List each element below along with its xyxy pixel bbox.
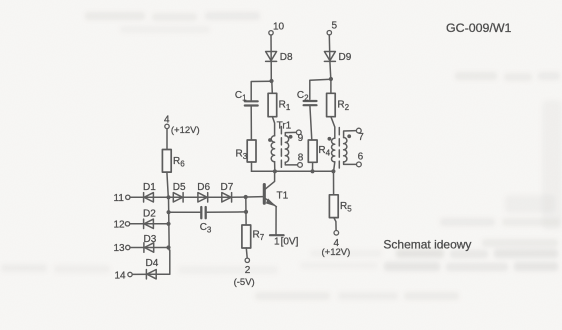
svg-text:14: 14 [115, 271, 127, 282]
wire [328, 35, 331, 61]
wire [272, 117, 274, 136]
diode D1 [144, 193, 154, 202]
svg-text:8: 8 [298, 153, 304, 164]
svg-text:D7: D7 [221, 182, 234, 193]
wire [334, 218, 336, 231]
terminal 11 [126, 195, 130, 199]
node D (R4 junction) [310, 169, 314, 173]
capacitor C2 [304, 101, 317, 105]
svg-text:1[0V]: 1[0V] [274, 237, 299, 248]
phase dot left winding Tr1 [268, 138, 272, 142]
svg-text:2: 2 [245, 265, 251, 276]
terminal 10 [269, 31, 273, 35]
transformer Tr2 [328, 128, 362, 169]
resistor R1 [268, 93, 277, 116]
wire [156, 250, 170, 274]
wire [130, 223, 169, 225]
wire [310, 79, 331, 99]
wire [270, 61, 272, 81]
diode D5 [173, 193, 183, 202]
wire [310, 106, 312, 140]
left winding of Tr2 [332, 138, 335, 162]
left winding of Tr1 [271, 136, 274, 162]
node B [329, 77, 333, 81]
svg-text:6: 6 [358, 152, 364, 163]
wire to terminal 8 [285, 162, 297, 165]
phase dot left winding Tr2 [328, 137, 332, 141]
core of Tr2 [338, 128, 340, 169]
svg-text:D2: D2 [143, 209, 156, 220]
svg-text:GC-009/W1: GC-009/W1 [446, 21, 512, 35]
resistor R3 [247, 140, 256, 162]
svg-text:D9: D9 [339, 52, 352, 63]
wire [245, 197, 247, 225]
svg-text:Tr1: Tr1 [277, 121, 292, 132]
svg-text:(+12V): (+12V) [171, 125, 200, 136]
node J [167, 210, 171, 214]
svg-text:D6: D6 [197, 182, 210, 193]
diode D4 [146, 270, 156, 279]
wire (C3 row right) [205, 211, 246, 213]
wire (C3 row left) [169, 211, 200, 213]
svg-text:13: 13 [114, 243, 126, 254]
transformer Tr1 [268, 127, 302, 169]
diode D9 [324, 52, 335, 62]
ground (terminal 1, 0V) [270, 234, 284, 236]
wire [271, 81, 274, 93]
capacitor C3 [201, 207, 205, 218]
wire (to base of T1) [232, 196, 263, 199]
wire [130, 247, 169, 249]
terminal 8 [298, 163, 303, 168]
diode D3 [144, 243, 154, 252]
wire (Tr1 left winding bottom to bus) [274, 162, 276, 172]
svg-text:7: 7 [358, 132, 364, 143]
right winding of Tr2 [344, 138, 347, 162]
svg-text:D4: D4 [146, 258, 159, 269]
wire (emitter down) [275, 207, 277, 235]
svg-text:(+12V): (+12V) [322, 247, 351, 258]
diode D6 [198, 193, 208, 202]
terminal 5 [327, 31, 331, 35]
node G [244, 195, 248, 199]
svg-text:12: 12 [114, 220, 126, 231]
terminal 2 [245, 258, 249, 262]
svg-text:D1: D1 [143, 182, 156, 193]
diode D2 [144, 219, 154, 228]
terminal 9 [296, 130, 301, 135]
svg-text:T1: T1 [277, 191, 289, 202]
node E (R5 junction) [331, 169, 335, 173]
core of Tr1 [280, 127, 282, 169]
wire [132, 273, 156, 275]
wire (vertical diode bus) [168, 197, 171, 250]
svg-text:5: 5 [332, 21, 338, 32]
node C (collector junction) [273, 169, 277, 173]
wire [250, 107, 252, 140]
wire [333, 171, 335, 195]
node I [166, 245, 170, 249]
node K [244, 210, 248, 214]
wire [167, 172, 168, 197]
diode D8 [266, 52, 277, 62]
phase dot right winding Tr2 [347, 134, 351, 138]
wire [330, 79, 332, 93]
node A [269, 79, 273, 83]
wire to terminal 6 [344, 162, 357, 165]
resistor R5 [329, 195, 338, 218]
wire [130, 196, 173, 198]
node F [166, 195, 170, 199]
svg-text:D8: D8 [280, 52, 293, 63]
wire [270, 35, 272, 61]
phase dot right winding Tr1 [289, 135, 293, 139]
wire [329, 61, 332, 79]
wire to terminal 7 [344, 131, 357, 138]
right winding of Tr1 [285, 136, 288, 162]
transistor T1 [264, 172, 276, 207]
terminal 12 [125, 222, 129, 226]
terminal 13 [126, 245, 130, 249]
svg-text:4: 4 [164, 115, 170, 126]
node H [166, 222, 170, 226]
wire [251, 162, 253, 171]
terminal 7 [356, 128, 361, 133]
wire (bus) [252, 170, 334, 172]
terminal 14 [128, 272, 132, 276]
svg-text:(-5V): (-5V) [234, 277, 255, 288]
wire [173, 196, 231, 198]
diode D7 [222, 193, 232, 202]
terminal 6 [357, 162, 362, 167]
resistor R2 [327, 93, 336, 116]
svg-text:10: 10 [273, 22, 285, 33]
wire (Tr2 left winding bottom to bus) [334, 162, 335, 171]
circuit drawing [125, 31, 361, 279]
wire [251, 81, 271, 100]
svg-text:D5: D5 [173, 182, 186, 193]
wire [331, 117, 335, 139]
wire [245, 248, 248, 258]
resistor R6 [162, 150, 171, 173]
terminal 4 (bottom) [334, 231, 339, 236]
wire to terminal 9 [285, 132, 296, 135]
svg-text:11: 11 [114, 193, 125, 204]
svg-text:9: 9 [298, 133, 304, 144]
wire [312, 162, 314, 171]
wire [166, 129, 168, 150]
terminal 4 (top left) [165, 124, 169, 128]
svg-text:D3: D3 [144, 234, 157, 245]
resistor R7 [242, 225, 251, 248]
capacitor C1 [245, 101, 258, 105]
resistor R4 [308, 140, 317, 162]
svg-text:Schemat ideowy: Schemat ideowy [383, 237, 471, 251]
